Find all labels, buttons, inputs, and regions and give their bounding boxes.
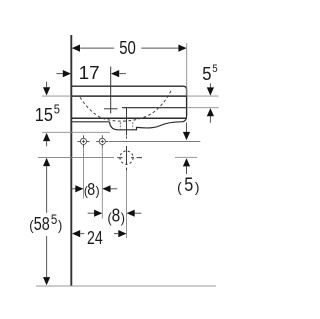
- svg-text:): ): [96, 184, 100, 199]
- dimension (8) second: [88, 205, 142, 226]
- svg-text:8: 8: [87, 179, 95, 199]
- extension line 15-5 top: [42, 95, 71, 97]
- hidden drain pipe right: [132, 122, 134, 129]
- dimension 58-5: [29, 158, 62, 285]
- drain centerline vertical upper: [126, 107, 128, 136]
- drain horizontal centerline: [117, 157, 142, 159]
- extension line 58-5 top: [38, 156, 114, 158]
- dimension 5-5: [202, 63, 217, 123]
- dimension 24: [72, 227, 127, 248]
- svg-text:17: 17: [79, 62, 100, 83]
- svg-text:5: 5: [51, 211, 58, 227]
- wall line: [70, 35, 72, 286]
- svg-text:24: 24: [87, 227, 103, 248]
- svg-text:5: 5: [184, 175, 193, 196]
- svg-text:): ): [58, 217, 62, 233]
- svg-text:): ): [195, 179, 200, 195]
- reference line y141: [109, 140, 200, 142]
- svg-text:8: 8: [112, 205, 121, 226]
- svg-text:(: (: [177, 179, 182, 195]
- dimension 15-5: [35, 82, 60, 147]
- svg-text:58: 58: [34, 213, 50, 234]
- drain circle: [120, 151, 133, 164]
- dimension 17: [56, 62, 126, 83]
- basin underside main line: [71, 117, 186, 119]
- extension line drain: [126, 170, 128, 238]
- fixing hole 2: [96, 135, 108, 147]
- svg-text:5: 5: [202, 63, 211, 84]
- dimension (5) right: [177, 123, 199, 197]
- svg-text:50: 50: [119, 37, 136, 58]
- bowl hidden curve: [80, 89, 172, 121]
- basin lower left edge line: [71, 121, 109, 123]
- basin bottom right line: [122, 107, 187, 109]
- hidden drain pipe left: [119, 122, 121, 129]
- svg-text:5: 5: [212, 63, 217, 75]
- reference line at drain level right: [175, 156, 197, 158]
- extension line 50 right: [186, 43, 188, 95]
- tap hole centerline: [110, 67, 112, 114]
- extension line 5-5 bottom right: [187, 107, 219, 109]
- trap housing: [110, 122, 138, 130]
- extension line hole 2: [101, 148, 103, 219]
- svg-text:5: 5: [54, 103, 60, 117]
- drain centerline vertical dash-dot: [126, 136, 128, 170]
- floor line: [36, 285, 216, 287]
- svg-text:15: 15: [35, 104, 53, 125]
- basin right edge: [186, 90, 188, 116]
- extension line 15-5 bottom: [42, 131, 110, 133]
- tap hole cross tick: [104, 108, 118, 110]
- extension line 5-5 top right: [187, 95, 219, 97]
- svg-text:): ): [121, 210, 125, 225]
- basin top line: [71, 86, 186, 90]
- fixing hole 1: [77, 135, 89, 147]
- basin rim second line: [71, 95, 186, 97]
- extension line hole 1: [83, 148, 85, 199]
- dimension (8) first: [72, 179, 118, 199]
- basin underside tongue: [137, 116, 187, 128]
- dimension 50: [72, 37, 187, 58]
